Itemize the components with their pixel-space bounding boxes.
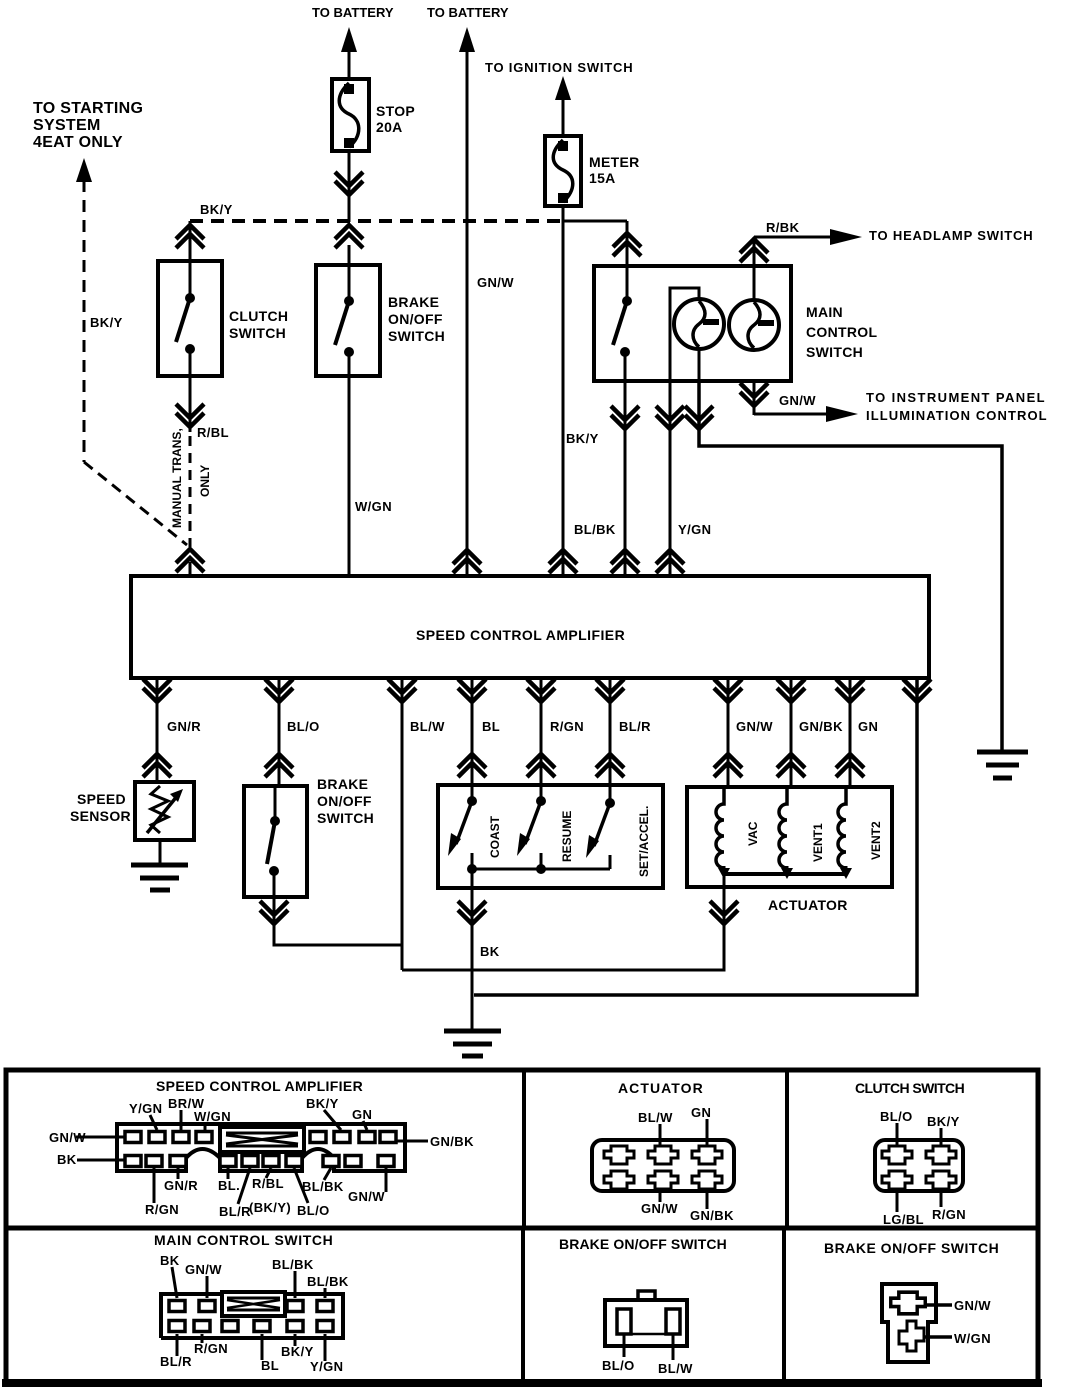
svg-text:BK/Y: BK/Y — [566, 431, 599, 446]
svg-text:MAIN CONTROL SWITCH: MAIN CONTROL SWITCH — [154, 1232, 333, 1248]
svg-text:BK: BK — [57, 1152, 77, 1167]
brake switch connector (middle) — [605, 1300, 687, 1346]
svg-text:SWITCH: SWITCH — [229, 325, 286, 341]
svg-text:BL/R: BL/R — [160, 1354, 192, 1369]
main control switch pins — [169, 1301, 185, 1312]
connector GN/W above amplifier — [453, 550, 481, 573]
svg-text:SENSOR: SENSOR — [70, 808, 131, 824]
svg-text:TO IGNITION SWITCH: TO IGNITION SWITCH — [485, 60, 633, 75]
svg-text:BRAKE: BRAKE — [388, 294, 439, 310]
wire stop fuse to BK/Y bus — [348, 151, 351, 222]
amplifier connector key block — [220, 1127, 304, 1152]
svg-text:TO INSTRUMENT PANEL: TO INSTRUMENT PANEL — [866, 390, 1045, 405]
wire brake switch to BL/W node — [274, 897, 402, 945]
svg-text:VENT2: VENT2 — [869, 821, 883, 860]
switch inside main control switch — [626, 266, 629, 301]
svg-text:BL/W: BL/W — [638, 1110, 673, 1125]
wire lamp1 bottom — [698, 349, 701, 381]
speed control amplifier U1 — [131, 576, 929, 678]
svg-text:BK/Y: BK/Y — [281, 1344, 314, 1359]
svg-text:4EAT ONLY: 4EAT ONLY — [33, 134, 123, 151]
svg-text:R/GN: R/GN — [932, 1207, 966, 1222]
switch SET/ACCEL — [609, 785, 612, 803]
wire GN/W lamp2 to illumination control — [753, 381, 756, 415]
svg-text:COAST: COAST — [488, 815, 502, 858]
svg-text:BL/W: BL/W — [410, 719, 445, 734]
wire R/BK lamp2 to headlamp switch — [753, 237, 756, 302]
ground speed sensor — [131, 865, 188, 890]
svg-text:SWITCH: SWITCH — [388, 328, 445, 344]
svg-text:BL/O: BL/O — [602, 1358, 635, 1373]
wire R/GN to resume switch — [540, 678, 543, 785]
wire branch to main control switch — [563, 220, 627, 223]
amplifier connector pins row 1 — [125, 1132, 141, 1143]
svg-text:ACTUATOR: ACTUATOR — [768, 897, 848, 913]
svg-text:BRAKE: BRAKE — [317, 776, 368, 792]
actuator box — [687, 787, 892, 887]
svg-text:BK/Y: BK/Y — [306, 1096, 339, 1111]
actuator connector — [592, 1140, 734, 1191]
wire BL/R to set-accel switch — [609, 678, 612, 785]
svg-text:RESUME: RESUME — [560, 811, 574, 862]
fuse STOP 20A — [332, 79, 369, 151]
wire into clutch switch — [189, 221, 192, 261]
svg-text:VENT1: VENT1 — [811, 823, 825, 862]
svg-text:W/GN: W/GN — [355, 499, 392, 514]
wire amplifier ground return — [474, 678, 917, 995]
arrow to ignition switch — [555, 76, 571, 100]
wire GN/W to actuator VAC — [727, 678, 730, 787]
svg-text:SPEED CONTROL AMPLIFIER: SPEED CONTROL AMPLIFIER — [156, 1078, 363, 1094]
svg-text:BL/R: BL/R — [619, 719, 651, 734]
svg-text:BL: BL — [482, 719, 500, 734]
svg-text:GN/BK: GN/BK — [799, 719, 843, 734]
wire into brake on/off switch — [348, 245, 351, 265]
wire manual trans only dashed — [189, 436, 192, 547]
svg-text:Y/GN: Y/GN — [310, 1359, 343, 1374]
clutch switch CLUTCH — [158, 261, 222, 376]
svg-text:GN/W: GN/W — [185, 1262, 222, 1277]
switch RESUME — [540, 785, 543, 801]
svg-text:BL.: BL. — [218, 1178, 240, 1193]
wire clutch switch to amplifier — [189, 376, 192, 432]
svg-text:BRAKE ON/OFF SWITCH: BRAKE ON/OFF SWITCH — [824, 1240, 999, 1256]
illumination lamp 2 — [729, 300, 779, 350]
svg-text:BL: BL — [261, 1358, 279, 1373]
svg-text:GN/W: GN/W — [954, 1298, 991, 1313]
svg-text:15A: 15A — [589, 170, 616, 186]
svg-text:ILLUMINATION CONTROL: ILLUMINATION CONTROL — [866, 408, 1047, 423]
wire lamp1 top jog — [670, 288, 699, 381]
svg-text:BL/O: BL/O — [880, 1109, 913, 1124]
svg-text:BL/R: BL/R — [219, 1204, 251, 1219]
connector below stop fuse — [335, 172, 363, 195]
svg-text:SPEED: SPEED — [77, 791, 126, 807]
svg-text:TO STARTING: TO STARTING — [33, 100, 143, 117]
wire switch common bus — [472, 868, 610, 871]
svg-text:BL/BK: BL/BK — [307, 1274, 349, 1289]
arrow to battery 2 — [459, 27, 475, 52]
actuator common bus — [724, 872, 846, 876]
wire actuator return to BL/W — [402, 874, 724, 970]
svg-text:VAC: VAC — [746, 821, 760, 846]
svg-text:BK: BK — [160, 1253, 180, 1268]
svg-text:GN/BK: GN/BK — [430, 1134, 474, 1149]
svg-text:(BK/Y): (BK/Y) — [249, 1200, 291, 1215]
svg-text:GN: GN — [858, 719, 878, 734]
svg-text:R/BK: R/BK — [766, 220, 800, 235]
svg-text:CONTROL: CONTROL — [806, 324, 877, 340]
arrow to battery — [341, 27, 357, 52]
svg-text:BK/Y: BK/Y — [90, 315, 123, 330]
wire lamp1 return to ground — [699, 381, 1002, 750]
svg-text:R/BL: R/BL — [197, 425, 229, 440]
svg-text:STOP: STOP — [376, 103, 415, 119]
amplifier connector outline — [117, 1124, 405, 1171]
svg-text:BL/W: BL/W — [658, 1361, 693, 1376]
main control switch connector outline — [161, 1294, 343, 1338]
svg-text:R/BL: R/BL — [252, 1176, 284, 1191]
brake on/off switch (top) — [316, 265, 380, 376]
svg-text:Y/GN: Y/GN — [678, 522, 711, 537]
wire BL/O to brake switch — [278, 678, 281, 786]
svg-text:BL/O: BL/O — [297, 1203, 330, 1218]
svg-text:ONLY: ONLY — [198, 465, 212, 497]
connector BK/Y above amplifier — [549, 550, 577, 573]
wire GN to actuator VENT2 — [849, 678, 852, 787]
coil VENT2 — [838, 787, 846, 868]
svg-text:BL/O: BL/O — [287, 719, 320, 734]
svg-text:METER: METER — [589, 154, 640, 170]
wire Y/GN lamp1 feed to amplifier — [669, 381, 672, 576]
svg-text:BK/Y: BK/Y — [927, 1114, 960, 1129]
svg-text:GN: GN — [691, 1105, 711, 1120]
wire sensor to ground — [159, 840, 162, 864]
svg-text:CLUTCH SWITCH: CLUTCH SWITCH — [855, 1080, 965, 1096]
svg-text:20A: 20A — [376, 119, 403, 135]
ground right — [977, 752, 1028, 778]
svg-text:SWITCH: SWITCH — [317, 810, 374, 826]
svg-text:BL/BK: BL/BK — [302, 1179, 344, 1194]
svg-text:BRAKE ON/OFF SWITCH: BRAKE ON/OFF SWITCH — [559, 1236, 727, 1252]
svg-text:GN/BK: GN/BK — [690, 1208, 734, 1223]
svg-text:Y/GN: Y/GN — [129, 1101, 162, 1116]
amplifier connector pins row 2 — [125, 1156, 141, 1167]
brake on/off switch (lower) — [244, 786, 307, 897]
coil VAC — [716, 787, 724, 868]
svg-text:GN/W: GN/W — [641, 1201, 678, 1216]
svg-text:SPEED CONTROL AMPLIFIER: SPEED CONTROL AMPLIFIER — [416, 627, 625, 643]
brake switch connector (right) — [882, 1284, 936, 1362]
coil VENT1 — [779, 787, 787, 868]
wire BK to ground — [471, 888, 474, 1030]
svg-text:MAIN: MAIN — [806, 304, 843, 320]
svg-text:W/GN: W/GN — [194, 1109, 231, 1124]
speed sensor — [135, 782, 194, 840]
wire GN/BK to actuator VENT1 — [790, 678, 793, 787]
svg-text:BK/Y: BK/Y — [200, 202, 233, 217]
wire to battery from stop fuse — [348, 50, 351, 79]
svg-text:ON/OFF: ON/OFF — [317, 793, 372, 809]
svg-text:BL/BK: BL/BK — [574, 522, 616, 537]
main control switch box — [594, 266, 791, 381]
connector above brake switch — [335, 225, 363, 248]
wire BL/W — [401, 678, 404, 970]
connector above main control switch — [613, 233, 641, 256]
connector above amplifier pin R/BL — [176, 549, 204, 572]
svg-text:MANUAL TRANS,: MANUAL TRANS, — [170, 428, 184, 528]
wire GN/W to amplifier — [466, 50, 469, 576]
svg-text:CLUTCH: CLUTCH — [229, 308, 288, 324]
svg-text:SET/ACCEL.: SET/ACCEL. — [637, 806, 651, 877]
svg-text:R/GN: R/GN — [194, 1341, 228, 1356]
clutch connector — [875, 1140, 963, 1191]
control switch box COAST RESUME SET/ACCEL — [438, 785, 663, 888]
wire BK/Y dashed to starting system — [83, 180, 86, 462]
svg-text:SYSTEM: SYSTEM — [33, 117, 101, 134]
svg-text:R/GN: R/GN — [550, 719, 584, 734]
wire BK/Y meter fuse to amplifier — [562, 206, 565, 576]
wire GN/R to speed sensor — [156, 678, 159, 782]
ground BK — [444, 1031, 501, 1056]
svg-text:ACTUATOR: ACTUATOR — [618, 1080, 703, 1096]
arrow to starting system — [76, 158, 92, 182]
svg-text:SWITCH: SWITCH — [806, 344, 863, 360]
connector above clutch switch — [176, 225, 204, 248]
svg-text:GN/W: GN/W — [477, 275, 514, 290]
svg-text:BK: BK — [480, 944, 500, 959]
svg-text:TO HEADLAMP SWITCH: TO HEADLAMP SWITCH — [869, 228, 1033, 243]
svg-text:GN/R: GN/R — [167, 719, 201, 734]
wire W/GN brake switch to amplifier — [348, 376, 351, 576]
wire BL/BK main control switch to amplifier — [624, 381, 627, 576]
switch COAST — [471, 785, 474, 801]
wire dashed diagonal manual-trans jog — [84, 462, 187, 545]
svg-text:GN: GN — [352, 1107, 372, 1122]
svg-text:GN/W: GN/W — [736, 719, 773, 734]
wire BL to coast switch — [471, 678, 474, 785]
wire to meter fuse — [562, 98, 565, 136]
fuse METER 15A — [545, 136, 581, 206]
table frame — [6, 1070, 1038, 1382]
svg-text:TO BATTERY: TO BATTERY — [427, 5, 509, 20]
svg-text:GN/W: GN/W — [348, 1189, 385, 1204]
svg-text:W/GN: W/GN — [954, 1331, 991, 1346]
illumination lamp 1 — [674, 299, 724, 349]
svg-text:GN/W: GN/W — [779, 393, 816, 408]
svg-text:ON/OFF: ON/OFF — [388, 311, 443, 327]
svg-text:GN/R: GN/R — [164, 1178, 198, 1193]
wire BK/Y dashed bus — [190, 219, 563, 223]
main control switch key block — [222, 1292, 285, 1316]
svg-text:R/GN: R/GN — [145, 1202, 179, 1217]
svg-text:LG/BL: LG/BL — [883, 1212, 924, 1227]
svg-text:BL/BK: BL/BK — [272, 1257, 314, 1272]
svg-text:TO BATTERY: TO BATTERY — [312, 5, 394, 20]
